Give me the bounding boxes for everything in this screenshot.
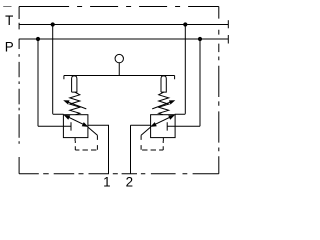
RV2 blocked port line bbox=[167, 122, 175, 130]
wire: circle stem bbox=[118, 63, 120, 76]
P rail bbox=[19, 38, 228, 40]
wire: port 2 line bbox=[131, 125, 151, 173]
relief valve RV1 body bbox=[63, 115, 88, 138]
wire: right T drop bbox=[175, 25, 186, 115]
vent rail bar bbox=[64, 76, 175, 80]
adjustment arrow left valve bbox=[67, 102, 86, 109]
node: T-left junction bbox=[51, 22, 55, 26]
svg-text:T: T bbox=[5, 13, 13, 28]
adjustment arrow right valve bbox=[152, 102, 171, 109]
T port tick bbox=[227, 20, 229, 28]
RV2 pilot line (dashed) bbox=[162, 138, 164, 141]
RV1 blocked port line bbox=[63, 122, 71, 130]
spring left valve bbox=[70, 92, 80, 115]
wire: left T drop bbox=[53, 25, 64, 115]
node: P-left junction bbox=[36, 37, 40, 41]
wire: port 1 line bbox=[88, 125, 109, 173]
node: T-right junction bbox=[183, 22, 187, 26]
relief valve RV2 body bbox=[151, 115, 176, 138]
RV1 flow arrow (double headed) bbox=[65, 116, 87, 127]
P port tick bbox=[227, 35, 229, 44]
svg-text:2: 2 bbox=[126, 175, 133, 190]
node: P-right junction bbox=[198, 37, 202, 41]
damper pill right bbox=[161, 76, 166, 92]
RV2 flow arrow (double headed) bbox=[151, 116, 173, 127]
svg-text:P: P bbox=[5, 40, 14, 55]
damper pill left bbox=[72, 76, 77, 92]
enclosure frame (dash-dot) bbox=[3, 7, 219, 174]
wire: left P drop bbox=[38, 39, 63, 126]
wire: right P drop bbox=[175, 39, 200, 126]
svg-text:1: 1 bbox=[103, 175, 110, 190]
RV1 pilot line (dashed) bbox=[74, 138, 76, 141]
pilot circle (vent port) bbox=[115, 54, 123, 62]
spring right valve bbox=[159, 92, 169, 115]
T rail bbox=[19, 24, 228, 26]
